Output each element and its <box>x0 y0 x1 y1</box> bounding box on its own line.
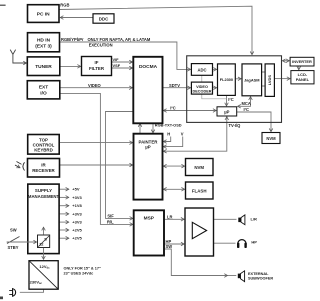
svg-text:TV-I/Q: TV-I/Q <box>229 123 242 128</box>
svg-text:JagASM: JagASM <box>244 77 259 82</box>
svg-text:+3V3: +3V3 <box>72 220 82 225</box>
svg-text:I²C: I²C <box>170 105 176 110</box>
svg-text:+1V8: +1V8 <box>72 203 82 208</box>
svg-text:HD IN: HD IN <box>37 38 51 44</box>
svg-text:PC IN: PC IN <box>37 11 50 17</box>
svg-text:LVDS: LVDS <box>267 75 272 86</box>
svg-text:NVM: NVM <box>194 165 204 170</box>
svg-text:HP: HP <box>251 240 257 245</box>
svg-text:µP: µP <box>224 110 229 115</box>
svg-text:RGB/YPbPr: RGB/YPbPr <box>61 37 84 42</box>
svg-text:SUPPLY: SUPPLY <box>35 188 52 193</box>
svg-text:FILTER: FILTER <box>89 66 105 71</box>
svg-text:MCA: MCA <box>242 101 251 106</box>
svg-text:ONLY FOR 15” & 17”: ONLY FOR 15” & 17” <box>64 267 101 271</box>
svg-text:ADC: ADC <box>197 67 206 72</box>
svg-text:PANEL: PANEL <box>296 77 310 82</box>
svg-text:R/L: R/L <box>107 220 114 225</box>
svg-text:I/O: I/O <box>40 90 47 96</box>
svg-text:+5V: +5V <box>72 187 80 192</box>
svg-text:SW: SW <box>166 244 173 249</box>
svg-text:KEYBRD: KEYBRD <box>34 147 53 152</box>
svg-text:µP: µP <box>145 145 151 150</box>
svg-text:VIDEO: VIDEO <box>88 83 102 88</box>
svg-text:STBY: STBY <box>8 245 19 250</box>
svg-text:VIF: VIF <box>113 57 120 62</box>
svg-text:+2V5: +2V5 <box>72 228 82 233</box>
svg-text:H: H <box>167 131 170 136</box>
svg-text:FLASH: FLASH <box>192 189 207 194</box>
svg-text:SIF: SIF <box>107 213 114 218</box>
svg-text:INVERTER: INVERTER <box>292 59 312 64</box>
svg-text:FL2300: FL2300 <box>220 77 233 82</box>
svg-text:+2V5: +2V5 <box>72 236 82 241</box>
svg-text:EXTERNAL: EXTERNAL <box>248 272 269 276</box>
svg-text:RGB-TXT-OSD: RGB-TXT-OSD <box>155 123 182 128</box>
svg-text:MANAGEMENT: MANAGEMENT <box>28 194 60 199</box>
svg-text:DDC: DDC <box>99 16 109 21</box>
svg-text:12: 12 <box>39 242 44 247</box>
svg-text:VIDEO: VIDEO <box>196 85 208 89</box>
svg-text:NVM: NVM <box>266 136 276 141</box>
svg-text:SUBWOOFER: SUBWOOFER <box>248 276 273 280</box>
svg-text:DECODER: DECODER <box>193 89 212 93</box>
svg-text:V: V <box>181 131 184 136</box>
svg-text:I²C: I²C <box>228 97 234 102</box>
svg-text:IF: IF <box>95 60 99 65</box>
svg-text:LR: LR <box>167 214 173 219</box>
svg-text:DOCMA: DOCMA <box>139 64 158 70</box>
svg-text:+3V3: +3V3 <box>72 195 82 200</box>
svg-text:VSF: VSF <box>113 63 121 68</box>
svg-text:RGB: RGB <box>60 3 69 8</box>
svg-text:ONLY FOR NAFTA, AP, & LATAM: ONLY FOR NAFTA, AP, & LATAM <box>88 37 151 42</box>
svg-text:23” USES 24Vdc: 23” USES 24Vdc <box>64 272 94 276</box>
svg-text:SW: SW <box>10 228 17 233</box>
svg-text:EXECUTION: EXECUTION <box>89 42 113 47</box>
svg-text:RECEIVER: RECEIVER <box>32 168 55 173</box>
svg-text:S: S <box>44 236 47 241</box>
svg-text:TUNER: TUNER <box>35 64 52 70</box>
svg-text:SDTV: SDTV <box>169 83 180 88</box>
svg-text:EXT: EXT <box>39 85 48 91</box>
svg-text:I²C: I²C <box>244 107 250 112</box>
svg-text:MSP: MSP <box>144 216 155 222</box>
svg-text:L/R: L/R <box>251 216 258 221</box>
svg-text:+3V3: +3V3 <box>72 211 82 216</box>
svg-text:(EXT 3): (EXT 3) <box>35 43 52 49</box>
